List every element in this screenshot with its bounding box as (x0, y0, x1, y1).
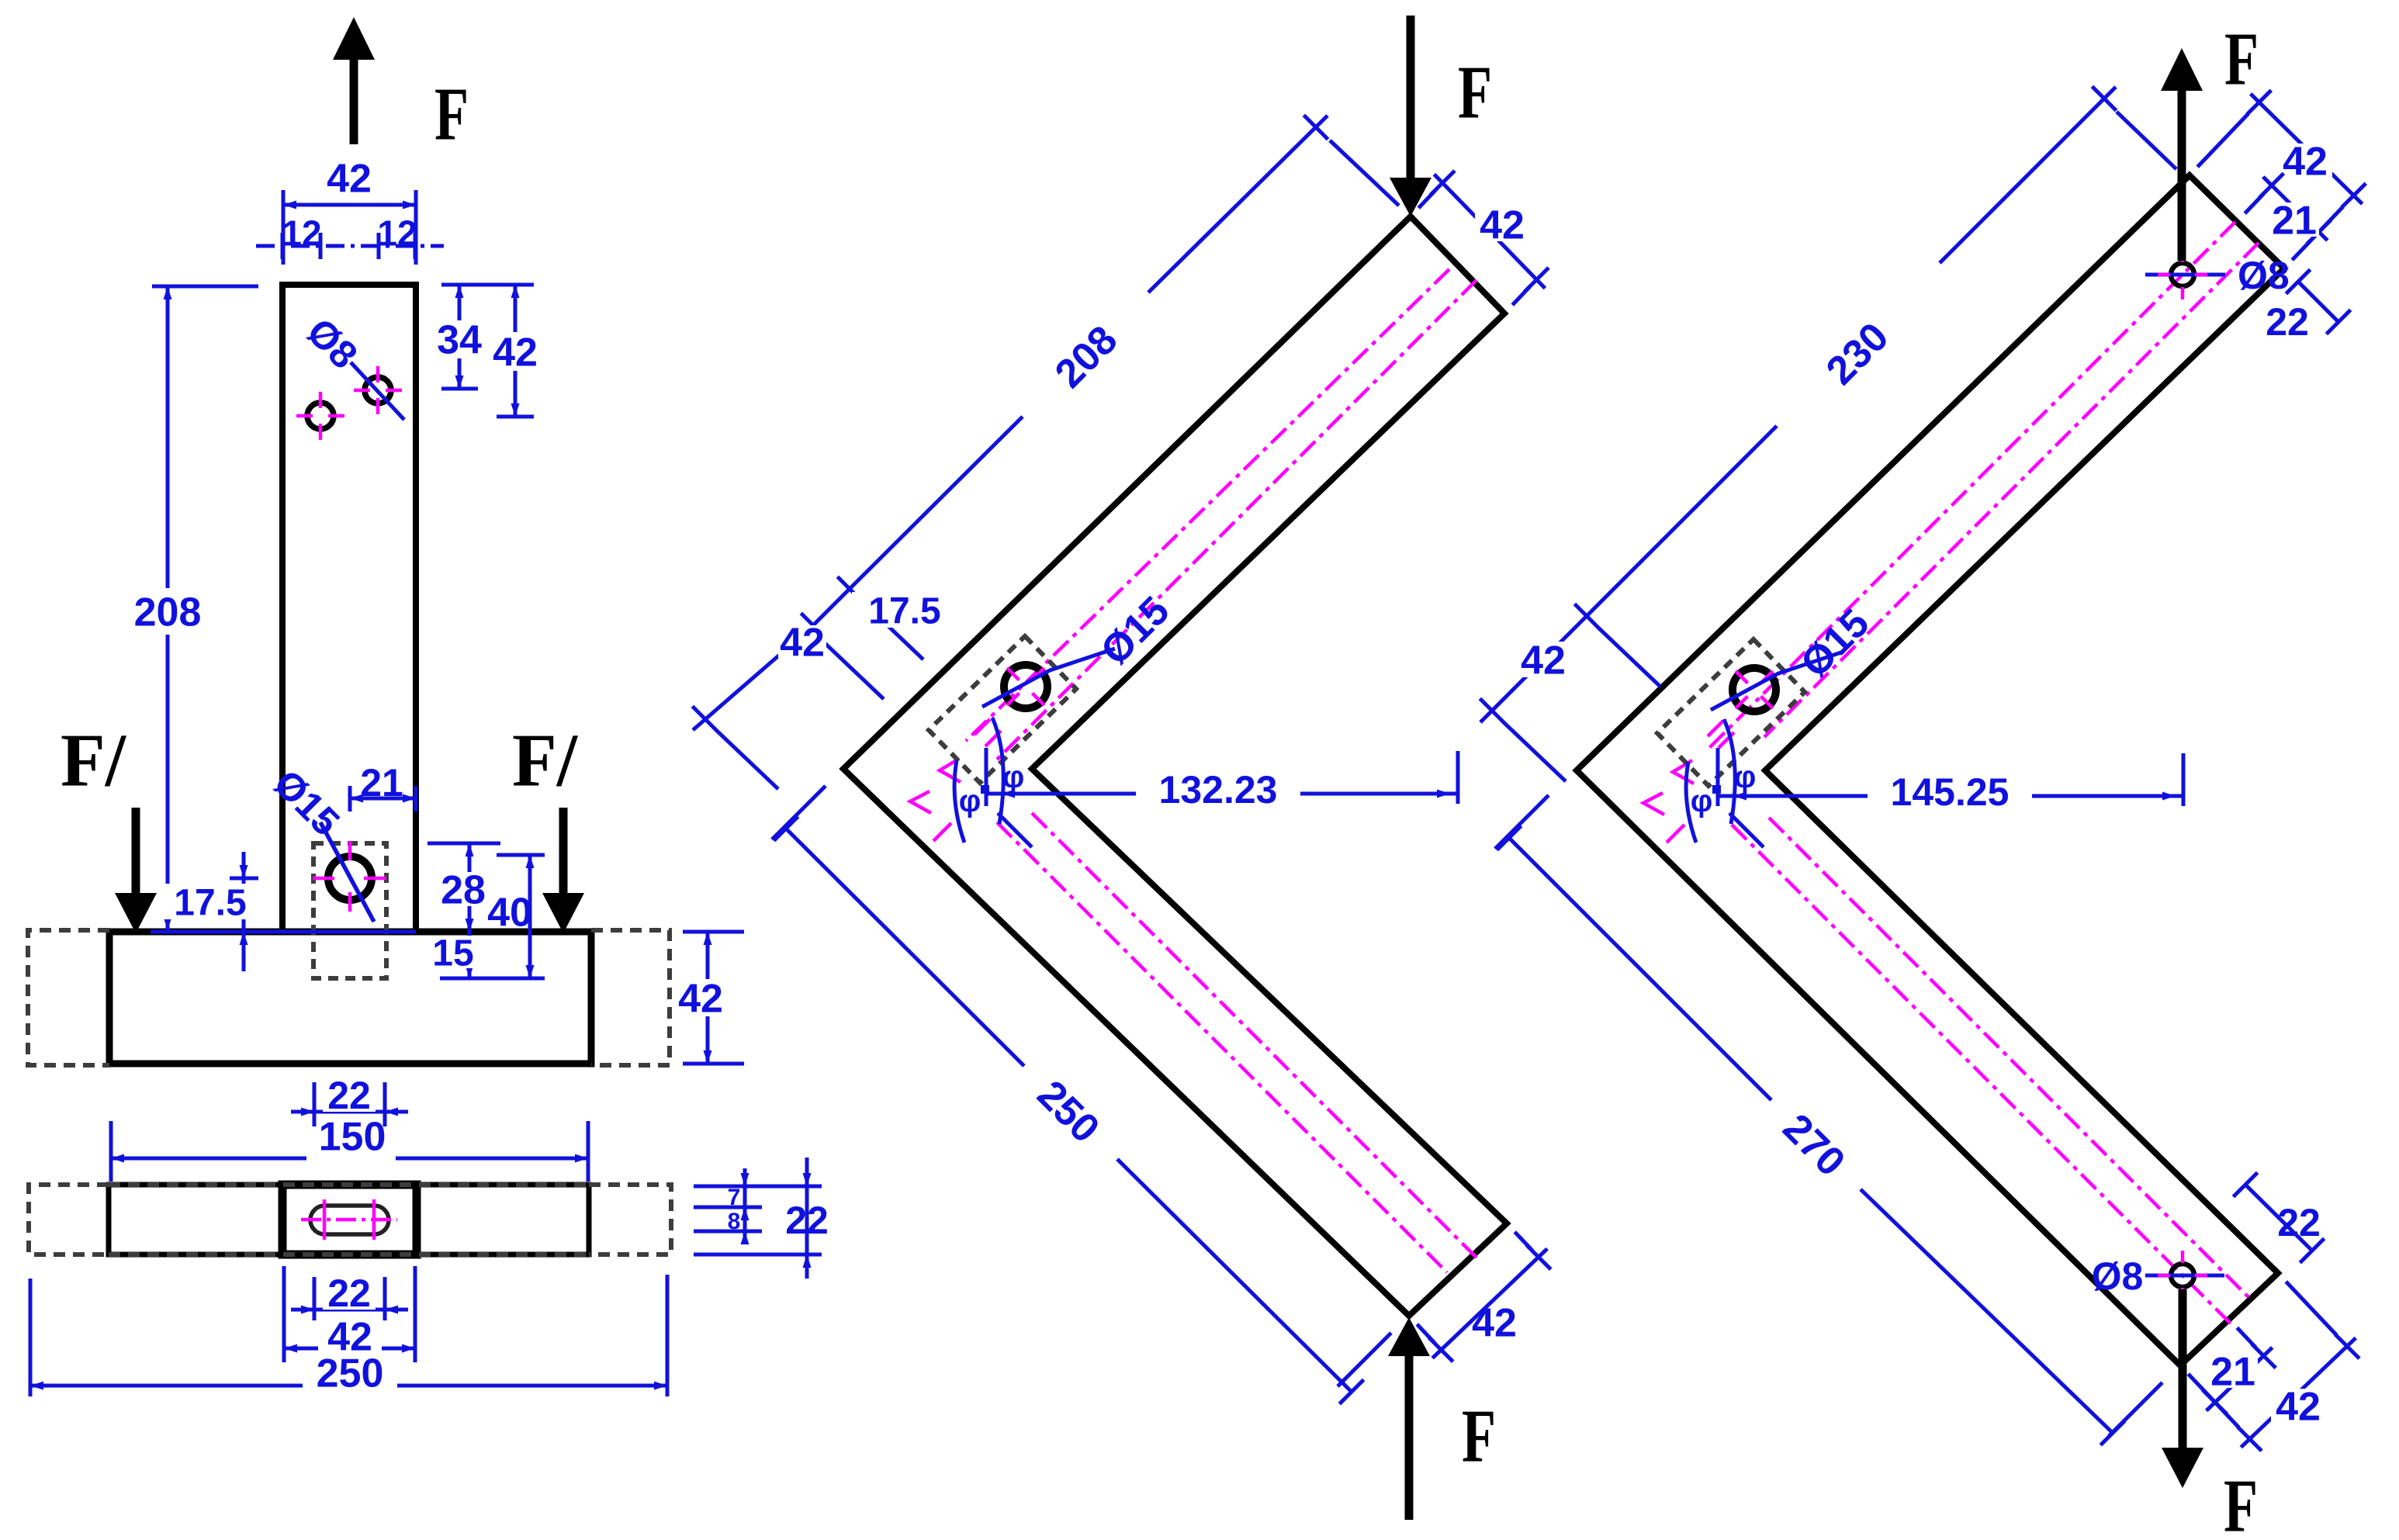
svg-text:42: 42 (678, 977, 723, 1022)
svg-text:φ: φ (1734, 760, 1757, 794)
svg-text:F: F (2224, 17, 2259, 101)
svg-text:42: 42 (1480, 203, 1525, 248)
svg-text:22: 22 (2266, 300, 2309, 344)
svg-text:21: 21 (2272, 199, 2317, 244)
svg-text:F/: F/ (512, 718, 579, 802)
svg-text:145.25: 145.25 (1891, 770, 2010, 814)
svg-text:42: 42 (1472, 1301, 1517, 1346)
svg-text:42: 42 (780, 621, 825, 666)
svg-text:12: 12 (377, 213, 417, 254)
svg-text:132.23: 132.23 (1159, 768, 1278, 812)
svg-text:22: 22 (327, 1074, 371, 1117)
svg-text:42: 42 (2283, 140, 2328, 185)
svg-text:φ: φ (1002, 760, 1025, 794)
svg-text:12: 12 (282, 213, 321, 254)
svg-text:42: 42 (2276, 1385, 2321, 1430)
svg-text:F: F (434, 72, 469, 156)
svg-text:34: 34 (437, 318, 482, 363)
svg-text:22: 22 (327, 1272, 371, 1315)
svg-text:F: F (1462, 1394, 1496, 1478)
svg-text:42: 42 (327, 157, 372, 202)
svg-text:φ: φ (959, 784, 981, 818)
svg-text:8: 8 (728, 1209, 741, 1234)
svg-text:40: 40 (487, 891, 532, 936)
svg-text:Ø8: Ø8 (2238, 254, 2290, 297)
svg-text:F: F (1458, 50, 1492, 134)
svg-text:42: 42 (493, 330, 538, 375)
svg-text:21: 21 (360, 761, 403, 805)
svg-text:250: 250 (317, 1351, 384, 1396)
svg-text:F/: F/ (61, 718, 127, 802)
svg-text:21: 21 (2210, 1350, 2255, 1395)
svg-text:17.5: 17.5 (868, 590, 940, 632)
svg-text:22: 22 (2277, 1201, 2321, 1244)
svg-text:φ: φ (1691, 784, 1713, 818)
svg-text:17.5: 17.5 (174, 882, 246, 923)
svg-text:42: 42 (1521, 638, 1566, 683)
svg-text:28: 28 (441, 868, 486, 913)
svg-text:Ø8: Ø8 (2092, 1254, 2144, 1298)
svg-text:208: 208 (134, 590, 202, 635)
svg-text:F: F (2224, 1464, 2258, 1536)
svg-text:15: 15 (432, 933, 473, 974)
svg-text:150: 150 (319, 1115, 386, 1160)
svg-text:7: 7 (728, 1185, 741, 1210)
